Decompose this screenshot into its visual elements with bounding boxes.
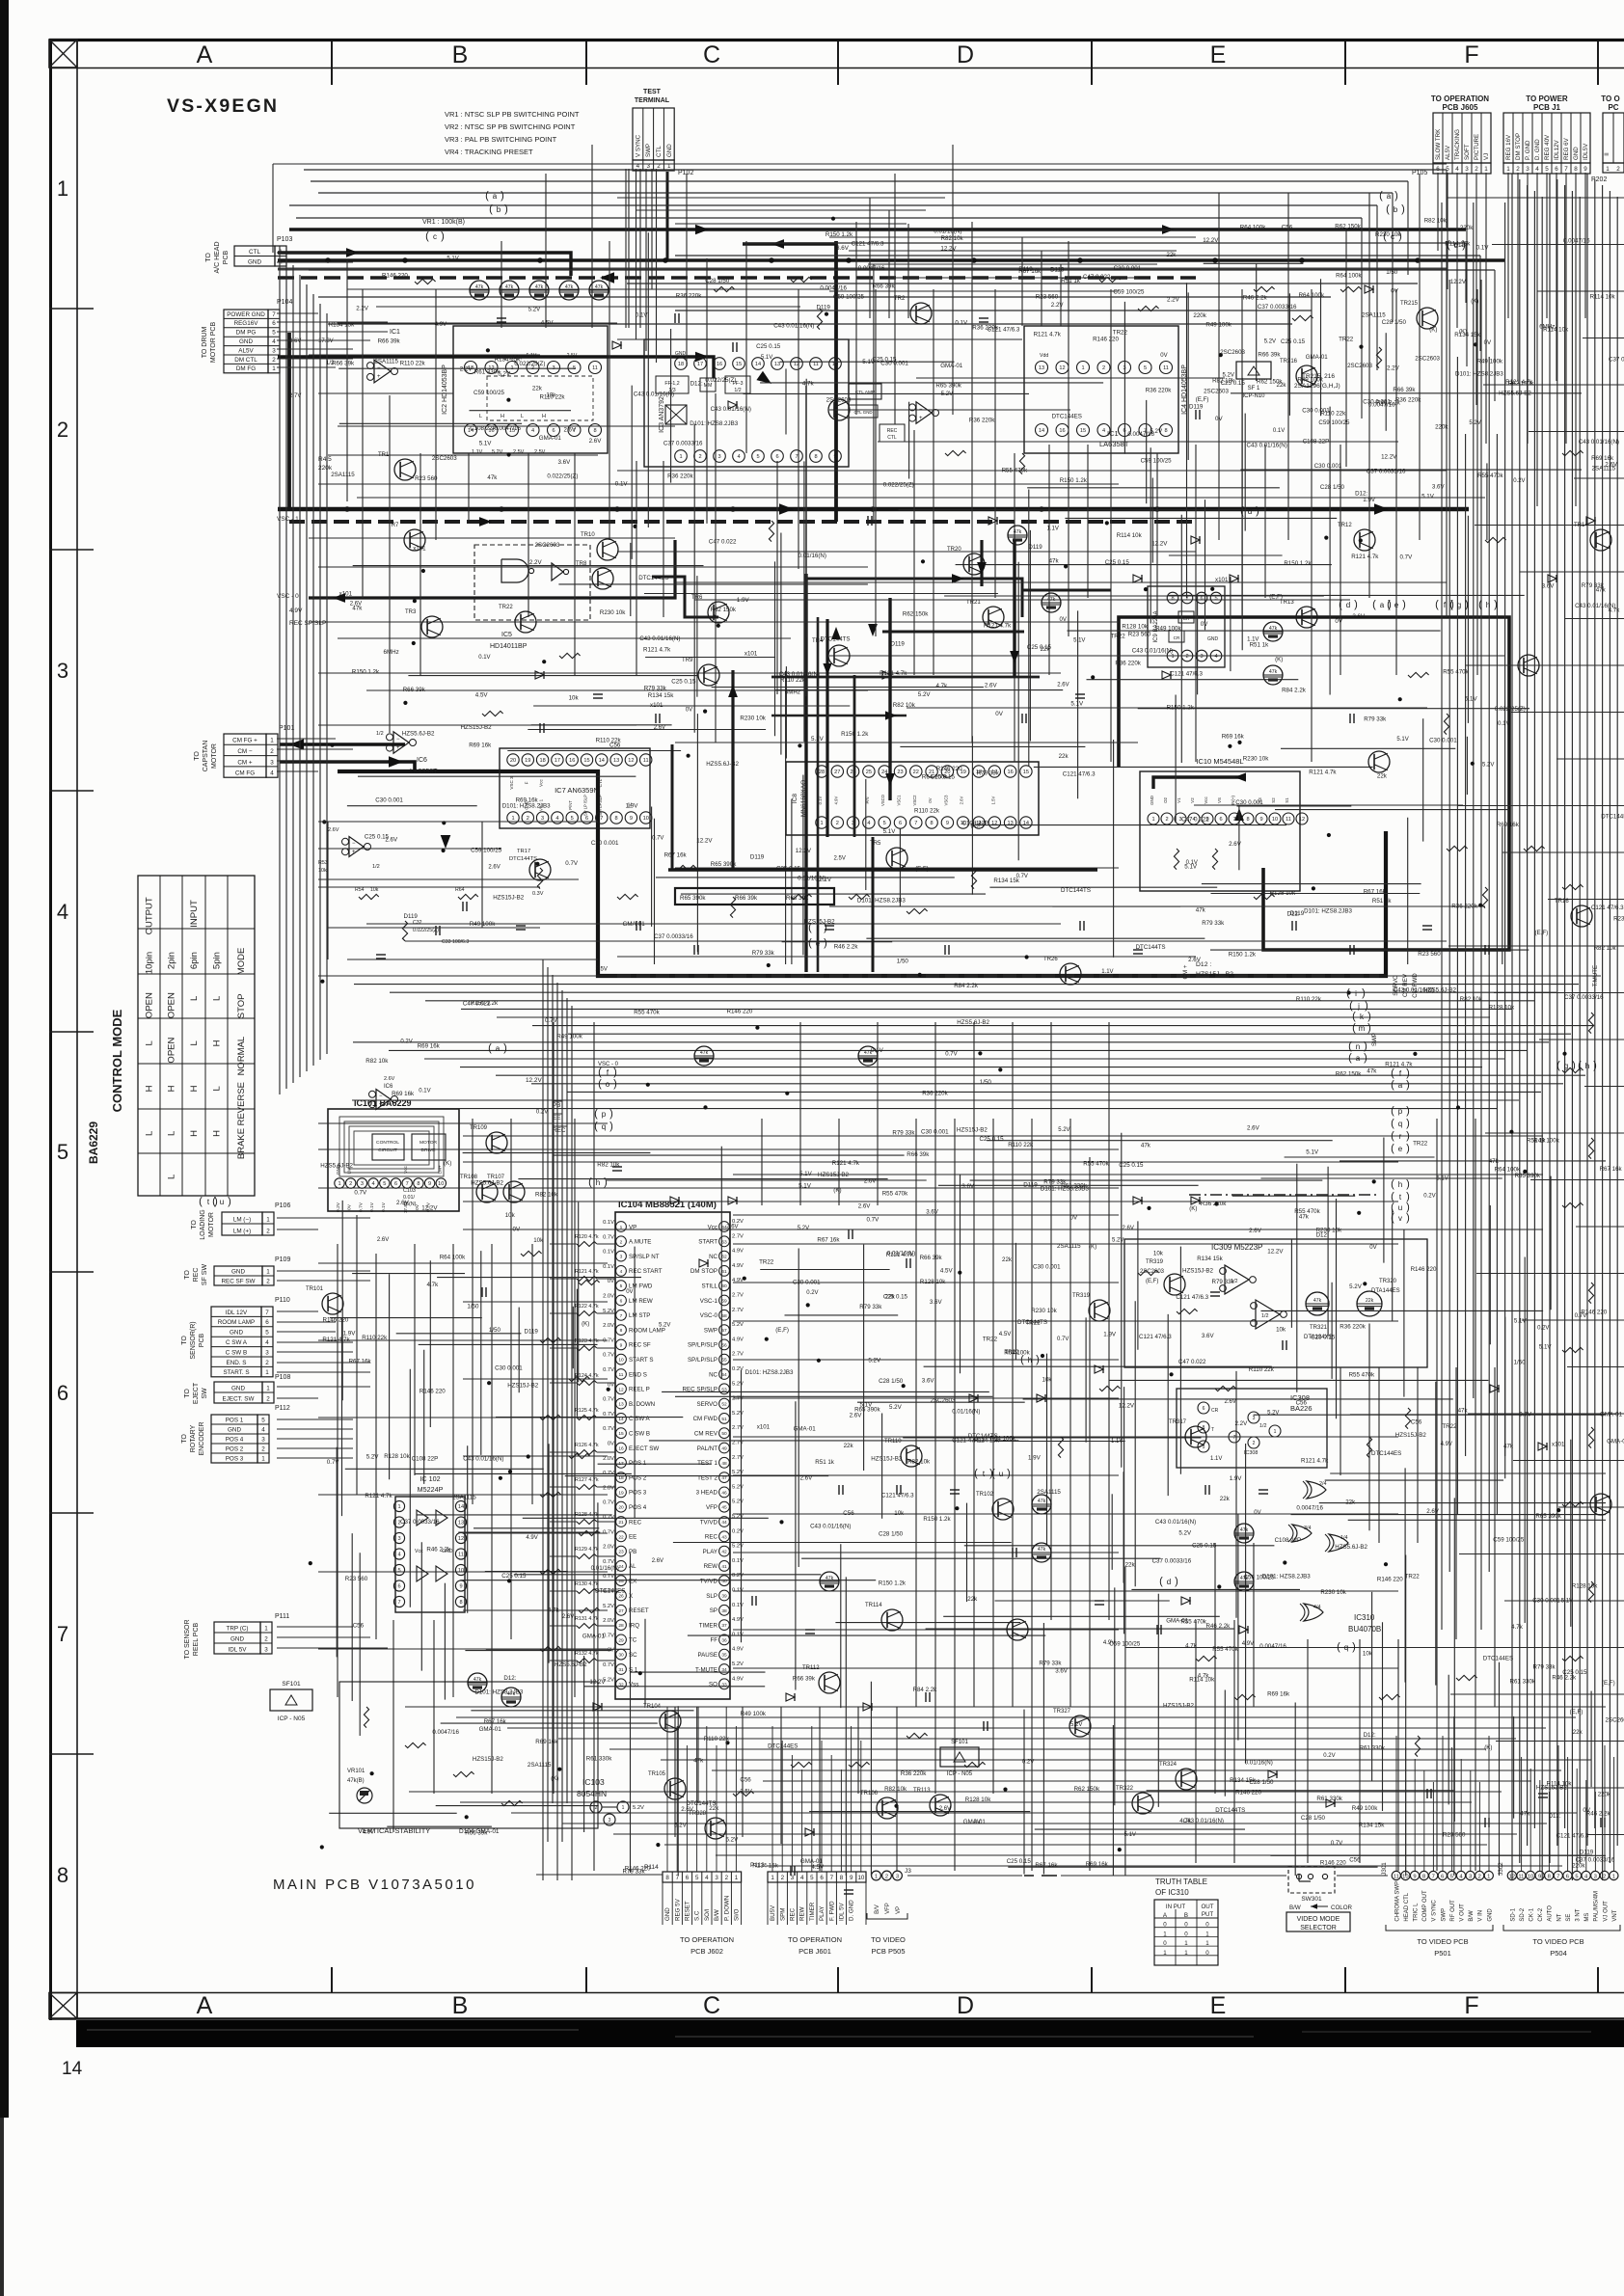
svg-text:): ) (1406, 1105, 1410, 1117)
svg-text:MAIN PCB V1073A5010: MAIN PCB V1073A5010 (273, 1877, 476, 1893)
svg-text:C25 0.15: C25 0.15 (1192, 1543, 1217, 1550)
svg-text:5.2V: 5.2V (1469, 420, 1480, 426)
resistor (964, 1762, 986, 1767)
transistor TR216 (1296, 365, 1317, 387)
wire bundle lower band horizontals (405, 1706, 1606, 1708)
svg-text:2.6V: 2.6V (654, 725, 665, 731)
bottom band top border (49, 1992, 1624, 1994)
svg-text:1/2: 1/2 (1261, 1313, 1269, 1319)
wire bundle mid band horizontals (318, 975, 1601, 977)
svg-text:TR17: TR17 (517, 849, 530, 854)
svg-text:5.2V: 5.2V (732, 1544, 744, 1550)
svg-text:12.2V: 12.2V (526, 1077, 542, 1084)
svg-text:22k: 22k (885, 1294, 896, 1301)
svg-text:CR: CR (1211, 1408, 1219, 1414)
svg-text:7: 7 (676, 1875, 680, 1881)
svg-text:R146 220: R146 220 (1377, 1576, 1403, 1582)
svg-text:9: 9 (946, 821, 949, 826)
svg-text:10: 10 (438, 1181, 444, 1187)
svg-text:POS 3: POS 3 (629, 1490, 647, 1497)
svg-text:0.1V: 0.1V (955, 320, 968, 327)
svg-text:R55 470k: R55 470k (1443, 668, 1469, 675)
svg-text:D101: HZS8.2JB3: D101: HZS8.2JB3 (1455, 371, 1503, 378)
svg-text:3.6V: 3.6V (930, 1299, 943, 1306)
svg-text:P110: P110 (275, 1297, 290, 1304)
svg-text:REVERSE: REVERSE (236, 1082, 247, 1125)
svg-text:12: 12 (1059, 365, 1065, 371)
svg-text:C25 0.15: C25 0.15 (1311, 1335, 1336, 1341)
svg-text:4: 4 (555, 816, 558, 822)
svg-text:6: 6 (1555, 166, 1558, 173)
svg-text:13: 13 (1007, 821, 1013, 826)
svg-text:R53: R53 (318, 860, 328, 866)
svg-text:C121 47/6.3: C121 47/6.3 (1591, 905, 1624, 911)
svg-text:0.7V: 0.7V (327, 1459, 340, 1466)
capacitor (925, 1692, 927, 1702)
svg-text:22: 22 (618, 1534, 624, 1540)
svg-text:3: 3 (896, 1874, 899, 1879)
svg-text:R150 1.2k: R150 1.2k (826, 231, 853, 238)
thick bus upper cluster y238 (289, 228, 1466, 231)
bottom band bottom border (49, 2017, 1624, 2019)
svg-text:5.1V: 5.1V (1073, 637, 1085, 643)
svg-text:5: 5 (397, 1568, 400, 1574)
svg-text:0.7V: 0.7V (603, 1397, 614, 1403)
svg-text:0.1V: 0.1V (1476, 244, 1490, 251)
resistor network circle (820, 1572, 839, 1591)
svg-text:R67 16k: R67 16k (1035, 1862, 1058, 1869)
svg-text:22k: 22k (1573, 1729, 1583, 1736)
svg-text:D12:: D12: (1364, 1732, 1376, 1739)
svg-text:47k: 47k (1038, 1547, 1046, 1553)
svg-text:2.6V: 2.6V (1229, 841, 1242, 848)
svg-text:0.2V: 0.2V (1022, 1760, 1034, 1766)
svg-text:2.5V: 2.5V (834, 856, 846, 862)
svg-text:a: a (496, 1044, 501, 1053)
svg-text:0.3V: 0.3V (532, 891, 544, 897)
svg-text:51: 51 (721, 1417, 727, 1422)
svg-text:C32: C32 (413, 920, 422, 926)
svg-text:R61 330k: R61 330k (1510, 1679, 1536, 1686)
svg-text:47k: 47k (1047, 597, 1056, 603)
svg-text:2.0V: 2.0V (603, 1545, 614, 1551)
svg-text:): ) (1352, 1641, 1356, 1653)
svg-text:R121 4.7k: R121 4.7k (365, 1493, 392, 1499)
IC104 pin 33 right (719, 1679, 730, 1689)
svg-text:R82 10k: R82 10k (907, 1458, 931, 1465)
svg-text:C43 0.01/16(N): C43 0.01/16(N) (634, 392, 674, 398)
svg-text:C47 0.022: C47 0.022 (1178, 1359, 1206, 1365)
IC309 op-amp 1 (1225, 1265, 1249, 1294)
svg-text:R49 100k: R49 100k (1155, 626, 1181, 633)
IC4 HD14053BP box (1024, 326, 1178, 453)
svg-text:C25 0.15: C25 0.15 (756, 343, 781, 350)
svg-text:3: 3 (791, 1875, 795, 1881)
svg-text:1: 1 (272, 365, 276, 372)
svg-text:R61 330k: R61 330k (1316, 1796, 1342, 1802)
svg-text:2: 2 (266, 1395, 270, 1402)
svg-text:LM (−): LM (−) (233, 1216, 251, 1223)
svg-text:VSC - 0: VSC - 0 (598, 1062, 619, 1067)
svg-text:2: 2 (1603, 1874, 1606, 1879)
svg-text:1: 1 (1484, 166, 1488, 173)
svg-text:GND: GND (1150, 796, 1154, 805)
svg-text:13: 13 (458, 1521, 464, 1526)
svg-text:2: 2 (698, 454, 701, 460)
svg-text:R67 16k: R67 16k (817, 1237, 840, 1244)
svg-text:1: 1 (266, 1268, 270, 1275)
svg-text:0V: 0V (1484, 339, 1492, 346)
svg-text:7: 7 (272, 311, 276, 318)
thick bus top stub (743, 242, 836, 245)
svg-text:6: 6 (1441, 1874, 1444, 1879)
transistor TR112 (819, 1672, 840, 1693)
svg-text:49: 49 (721, 1446, 727, 1452)
svg-text:2.2V: 2.2V (1051, 302, 1065, 309)
svg-text:2: 2 (264, 1635, 268, 1642)
svg-text:1: 1 (1205, 1940, 1209, 1947)
IC104 pin 32 left (616, 1679, 627, 1689)
svg-text:5.2V: 5.2V (732, 1381, 744, 1387)
svg-text:TR216: TR216 (1280, 359, 1298, 365)
svg-text:R46 2.2k: R46 2.2k (1552, 1675, 1577, 1682)
svg-text:): ) (1367, 1022, 1371, 1034)
svg-text:): ) (613, 1067, 617, 1078)
svg-text:22k: 22k (1366, 1298, 1374, 1304)
diode (670, 1197, 679, 1204)
svg-text:HZS5.6J-B2: HZS5.6J-B2 (957, 1019, 989, 1026)
svg-text:2: 2 (349, 1181, 352, 1187)
svg-text:TR320: TR320 (1379, 1279, 1397, 1284)
svg-text:8: 8 (459, 1600, 462, 1606)
svg-text:GMA-01: GMA-01 (1607, 1439, 1624, 1445)
svg-text:7: 7 (406, 1181, 409, 1187)
transistor TR113 (930, 1795, 951, 1816)
svg-text:x101: x101 (339, 591, 353, 598)
svg-text:2.6V: 2.6V (396, 1200, 410, 1206)
capacitor (979, 317, 988, 319)
svg-text:2SC2603: 2SC2603 (1204, 389, 1229, 395)
svg-text:d: d (1248, 507, 1252, 516)
transistor TR102 (992, 1499, 1014, 1520)
svg-text:5: 5 (272, 330, 276, 337)
diode (593, 1703, 602, 1711)
svg-text:HZS15J-B2: HZS15J-B2 (818, 1172, 850, 1178)
svg-text:R128 10k: R128 10k (384, 1453, 410, 1460)
svg-text:0.0047/16: 0.0047/16 (432, 1729, 459, 1736)
bracket under J3 labels (867, 1913, 907, 1919)
resistor (364, 1707, 368, 1728)
resistor (1379, 1694, 1400, 1699)
svg-text:2.6V: 2.6V (858, 1203, 872, 1210)
svg-text:(: ( (1391, 1143, 1394, 1154)
svg-text:12.2V: 12.2V (1450, 279, 1467, 285)
svg-text:6: 6 (57, 1381, 68, 1405)
svg-text:47k: 47k (826, 1576, 834, 1581)
svg-text:2: 2 (836, 821, 839, 826)
svg-text:(: ( (598, 1078, 602, 1090)
svg-text:R36 220k: R36 220k (1340, 1324, 1366, 1331)
svg-text:C30 0.001: C30 0.001 (1532, 1598, 1560, 1605)
svg-text:CM FWD: CM FWD (1412, 973, 1419, 998)
svg-text:10: 10 (458, 1568, 464, 1574)
svg-text:HZS15J-B2: HZS15J-B2 (804, 919, 836, 926)
svg-text:GND: GND (239, 338, 253, 345)
thick bus capstan arrows at P101 (280, 743, 405, 746)
resistor (1234, 1694, 1256, 1699)
svg-text:0.2V: 0.2V (732, 1528, 744, 1534)
svg-text:TEST 1: TEST 1 (697, 1460, 717, 1467)
svg-text:R55 470k: R55 470k (1349, 1372, 1375, 1379)
svg-text:4: 4 (1214, 654, 1217, 660)
svg-text:3.6V: 3.6V (1542, 583, 1556, 590)
svg-text:19: 19 (525, 758, 530, 764)
svg-text:VSC-0: VSC-0 (700, 1312, 718, 1319)
svg-text:SLP: SLP (706, 1593, 717, 1600)
svg-text:5.2V: 5.2V (498, 370, 511, 377)
svg-text:6MHz: 6MHz (384, 649, 399, 656)
svg-text:2SA1115: 2SA1115 (452, 1495, 476, 1501)
svg-text:0.7V: 0.7V (354, 1190, 367, 1197)
svg-text:0: 0 (1205, 1922, 1209, 1929)
svg-text:13: 13 (613, 758, 619, 764)
svg-text:): ) (609, 1121, 613, 1132)
svg-text:EE: EE (629, 1534, 636, 1541)
svg-text:0.2V: 0.2V (536, 1109, 548, 1115)
diode (1538, 1443, 1547, 1450)
svg-text:H: H (189, 1085, 200, 1092)
svg-text:HD14011BP: HD14011BP (490, 643, 528, 650)
svg-text:3.6V: 3.6V (1352, 613, 1366, 620)
svg-text:SF 1: SF 1 (1248, 386, 1260, 392)
resistor network circle (694, 1046, 714, 1066)
VR101 potentiometer (357, 1788, 372, 1803)
svg-text:0.2V: 0.2V (1513, 478, 1525, 484)
diode (805, 1828, 814, 1836)
svg-text:3.6V: 3.6V (558, 459, 572, 466)
svg-text:C121 47/6.3: C121 47/6.3 (1176, 1294, 1208, 1301)
svg-text:2.5V: 2.5V (740, 1790, 751, 1796)
svg-text:2.6V: 2.6V (1057, 683, 1069, 689)
svg-text:R65 390k: R65 390k (854, 1407, 880, 1414)
svg-text:C37 0.0033/16: C37 0.0033/16 (1152, 1557, 1192, 1564)
svg-text:TV/VD: TV/VD (700, 1519, 718, 1526)
svg-text:R84 2.2k: R84 2.2k (954, 983, 979, 989)
svg-text:C37 0.0033/16: C37 0.0033/16 (400, 1519, 440, 1526)
svg-text:2.7V: 2.7V (732, 1233, 744, 1239)
svg-text:D119: D119 (1580, 1850, 1594, 1856)
svg-text:): ) (1256, 505, 1259, 517)
svg-text:R46 2.2k: R46 2.2k (1243, 294, 1268, 301)
svg-text:4.7k: 4.7k (1185, 1643, 1198, 1650)
svg-text:5pin: 5pin (212, 952, 223, 969)
svg-text:R46 2.2k: R46 2.2k (1206, 1623, 1232, 1630)
svg-text:0.2V: 0.2V (1537, 1325, 1549, 1331)
resistor (1588, 1581, 1593, 1603)
svg-text:4.5V: 4.5V (999, 1331, 1013, 1337)
svg-text:5: 5 (1545, 166, 1549, 173)
svg-text:TR22: TR22 (1005, 1349, 1020, 1356)
transistor TR14 (1590, 529, 1611, 551)
IC104 pin 54 right (719, 1369, 730, 1380)
resistor network circle (1234, 1572, 1254, 1591)
svg-text:(: ( (588, 1176, 592, 1188)
IC104 pin 36 right (719, 1634, 730, 1645)
thick bus upper cluster y279 gray (278, 268, 1447, 271)
resistor (405, 1742, 426, 1747)
transistor TR26 (1060, 963, 1081, 985)
svg-text:2.0V: 2.0V (603, 1456, 614, 1462)
svg-text:VJ: VJ (1483, 153, 1490, 160)
svg-text:S.C: S.C (694, 1910, 701, 1921)
row2 extra wires upper center (617, 197, 945, 199)
svg-text:R46 2.2k: R46 2.2k (834, 943, 859, 950)
resistor (1562, 1202, 1583, 1207)
svg-text:R66 39k: R66 39k (920, 1255, 943, 1261)
svg-text:): ) (609, 1108, 613, 1120)
svg-text:): ) (1367, 1011, 1371, 1022)
svg-text:R134 15k: R134 15k (1454, 332, 1480, 338)
svg-text:0.2V: 0.2V (732, 1366, 744, 1372)
svg-text:0.7V: 0.7V (358, 1202, 364, 1212)
svg-text:D12 :: D12 : (1196, 961, 1211, 968)
svg-text:(: ( (1159, 1576, 1163, 1587)
svg-text:R230 10k: R230 10k (1613, 916, 1624, 923)
svg-text:0.01/16(N): 0.01/16(N) (952, 1409, 980, 1416)
svg-text:IDL12V: IDL12V (1554, 139, 1560, 160)
svg-text:TR22: TR22 (983, 1336, 998, 1342)
svg-text:R36 220k: R36 220k (1451, 903, 1477, 909)
svg-text:4: 4 (265, 1339, 269, 1346)
svg-text:R62 150k: R62 150k (903, 611, 929, 618)
svg-text:3/4: 3/4 (1304, 1526, 1312, 1531)
svg-text:R49 100k: R49 100k (1477, 358, 1503, 365)
svg-text:C56: C56 (1282, 224, 1293, 230)
svg-text:4.9V: 4.9V (289, 608, 303, 614)
svg-text:7: 7 (600, 816, 603, 822)
svg-text:x101: x101 (650, 702, 663, 709)
transistor TR110 (901, 1445, 922, 1467)
svg-text:T.MUTE: T.MUTE (1592, 965, 1599, 986)
junction dots on buses (325, 257, 331, 263)
svg-text:R36 220k: R36 220k (901, 1770, 927, 1777)
svg-text:IC10 M54548L: IC10 M54548L (1196, 757, 1243, 766)
svg-text:TR110: TR110 (884, 1439, 902, 1445)
svg-text:2SC2603: 2SC2603 (1606, 1717, 1624, 1724)
svg-text:R49 100k: R49 100k (556, 1033, 582, 1040)
transistor TR106 (877, 1797, 898, 1819)
svg-text:22: 22 (913, 770, 919, 775)
svg-text:C30 0.001: C30 0.001 (1429, 738, 1457, 744)
svg-text:0.7V: 0.7V (1331, 1841, 1342, 1847)
svg-text:START: START (698, 1239, 717, 1246)
svg-text:R146 220: R146 220 (382, 273, 408, 280)
svg-text:22k: 22k (532, 386, 543, 392)
svg-text:(: ( (425, 230, 429, 242)
svg-text:6: 6 (1566, 1874, 1569, 1879)
svg-text:44: 44 (721, 1520, 727, 1526)
svg-text:SWP: SWP (1371, 1033, 1378, 1046)
svg-text:0.01/16(N): 0.01/16(N) (798, 875, 826, 881)
wire bundle lower half verticals (337, 1244, 338, 1697)
svg-text:C108 22P: C108 22P (1275, 1537, 1302, 1544)
svg-text:1: 1 (261, 1455, 265, 1462)
svg-text:D101: HZS8.2JB3: D101: HZS8.2JB3 (1041, 1186, 1089, 1193)
svg-text:PICTURE: PICTURE (1474, 134, 1480, 160)
svg-text:4: 4 (867, 821, 870, 826)
svg-text:R121 4.7k: R121 4.7k (643, 647, 671, 654)
resistor (791, 1762, 812, 1767)
svg-text:a: a (1398, 1081, 1403, 1090)
svg-text:R150 1.2k: R150 1.2k (1229, 952, 1257, 959)
IC9 BA226A box (1148, 586, 1225, 667)
svg-text:35: 35 (721, 1653, 727, 1659)
capacitor (1012, 1548, 1014, 1557)
svg-text:220k: 220k (1572, 1863, 1585, 1870)
transistor TR102b (1007, 1619, 1028, 1640)
resistor network circle (1263, 622, 1283, 641)
IC10 M54548L box (1140, 771, 1300, 891)
IC104 pin 10 left (616, 1354, 627, 1364)
svg-text:x101: x101 (1552, 1442, 1565, 1448)
svg-text:10k: 10k (1042, 1377, 1053, 1384)
svg-text:e: e (1398, 1145, 1403, 1153)
svg-text:43: 43 (721, 1534, 727, 1540)
svg-text:5.2V: 5.2V (732, 1322, 744, 1328)
svg-text:GND: GND (664, 1907, 671, 1921)
svg-text:TR20: TR20 (947, 547, 961, 553)
svg-text:1: 1 (397, 1504, 400, 1510)
svg-text:C47 0.022: C47 0.022 (1181, 816, 1209, 823)
svg-text:7: 7 (1564, 166, 1568, 173)
svg-text:4.9V: 4.9V (435, 322, 447, 328)
svg-text:D119: D119 (1189, 403, 1204, 410)
svg-text:DM STOP: DM STOP (1515, 133, 1522, 160)
svg-text:(: ( (199, 1196, 203, 1207)
svg-text:5.1V: 5.1V (1465, 695, 1478, 702)
svg-text:R79 33k: R79 33k (859, 1304, 882, 1310)
control mode table (138, 876, 255, 1196)
wire stubs exiting right edge (1447, 197, 1624, 199)
svg-text:1/2: 1/2 (372, 864, 380, 870)
svg-text:5.1V: 5.1V (811, 736, 825, 743)
resistor (1456, 1675, 1477, 1680)
svg-text:14: 14 (62, 2059, 83, 2079)
svg-text:6: 6 (1219, 817, 1222, 823)
svg-text:L: L (189, 996, 200, 1001)
svg-text:5.2V: 5.2V (1349, 1283, 1363, 1290)
svg-text:X: X (629, 1593, 633, 1600)
svg-text:D12:: D12: (503, 1675, 516, 1682)
svg-text:HZS15J - B2: HZS15J - B2 (1196, 971, 1233, 978)
svg-text:C47 0.022: C47 0.022 (1083, 274, 1111, 281)
svg-text:7: 7 (57, 1622, 68, 1646)
resistor (1058, 1437, 1063, 1458)
capacitor (516, 925, 526, 927)
capacitor (844, 1889, 853, 1891)
svg-text:0.01/16(N): 0.01/16(N) (591, 1565, 619, 1572)
svg-text:47k: 47k (1014, 529, 1022, 535)
svg-text:): ) (1175, 1576, 1178, 1587)
svg-text:x101: x101 (413, 546, 426, 553)
svg-text:4.9V: 4.9V (363, 1829, 374, 1835)
IC104 pin 39 right (719, 1590, 730, 1601)
svg-text:R128 10k: R128 10k (1489, 1004, 1515, 1011)
wire bundle left edge verticals (279, 246, 281, 1094)
svg-text:6: 6 (397, 1584, 400, 1590)
svg-text:8: 8 (1246, 817, 1249, 823)
wire bundle upper half verticals (346, 260, 348, 501)
